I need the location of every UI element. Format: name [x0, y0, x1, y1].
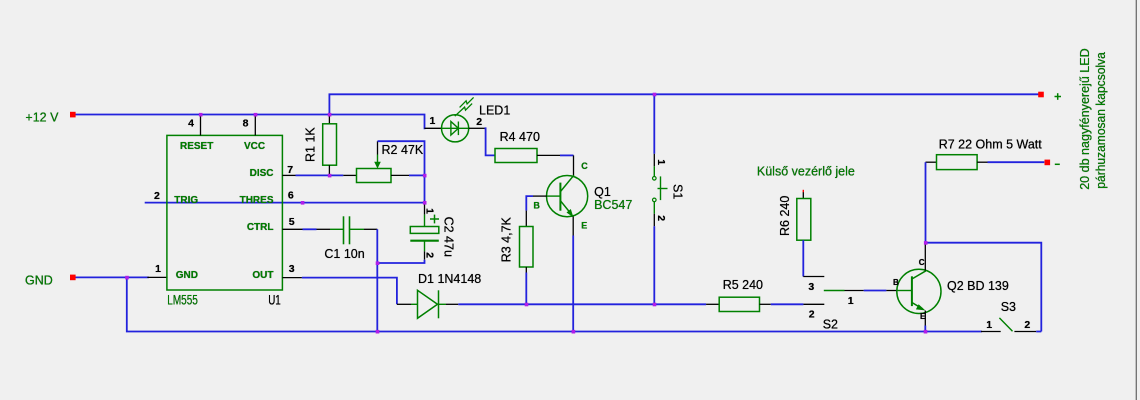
svg-text:R2 47K: R2 47K	[382, 143, 424, 157]
resistor R5	[706, 278, 771, 311]
node vertical / bottom bus	[376, 330, 380, 334]
wire R3 bottom to D1 line	[525, 273, 527, 305]
svg-text:C: C	[919, 258, 925, 267]
switch S3	[981, 300, 1041, 332]
node GND branch	[125, 276, 129, 280]
svg-text:1: 1	[848, 295, 854, 307]
svg-text:+12 V: +12 V	[25, 110, 59, 124]
svg-text:1: 1	[986, 319, 992, 331]
node pin4/bus	[199, 113, 203, 117]
svg-text:CTRL: CTRL	[247, 222, 274, 233]
U1 pin names	[174, 141, 274, 281]
wire R7 right to - terminal	[988, 161, 1045, 163]
wire +12V bus	[75, 115, 425, 129]
port - terminal	[1045, 160, 1051, 166]
wire S2 pin1 to Q2 base	[864, 290, 887, 292]
wire R6 down to S2 pin3	[802, 240, 804, 276]
resistor R4	[495, 130, 560, 163]
node R1 top branch	[328, 113, 332, 117]
svg-text:Külső vezérlő jele: Külső vezérlő jele	[757, 164, 855, 178]
svg-text:2: 2	[809, 309, 815, 321]
transistor Q2 BD 139	[886, 243, 1008, 326]
svg-text:7: 7	[287, 164, 293, 176]
svg-text:C2 47u: C2 47u	[441, 217, 455, 257]
potentiometer R2	[357, 141, 424, 182]
resistor R1	[304, 115, 337, 176]
svg-text:GND: GND	[176, 270, 198, 281]
svg-text:R3 4,7K: R3 4,7K	[499, 216, 513, 262]
wire R5 to S2 pin2	[771, 303, 804, 305]
svg-text:LED1: LED1	[479, 104, 510, 118]
svg-text:S1: S1	[671, 184, 685, 199]
wire Q2 emitter to bus	[924, 326, 926, 332]
svg-text:R7 22 Ohm 5 Watt: R7 22 Ohm 5 Watt	[939, 138, 1043, 152]
capacitor C2	[410, 203, 455, 260]
svg-text:DISC: DISC	[250, 168, 274, 179]
svg-text:TRIG: TRIG	[174, 195, 198, 206]
svg-text:6: 6	[288, 190, 294, 202]
svg-text:2: 2	[423, 252, 435, 258]
node Q1 emitter / bus	[572, 330, 576, 334]
wire R4 to Q1 collector	[560, 154, 574, 156]
pin 7 stub	[282, 174, 295, 176]
resistor R3	[499, 211, 533, 273]
svg-text:B: B	[533, 201, 540, 211]
LED LED1	[425, 97, 511, 142]
svg-text:Q2 BD 139: Q2 BD 139	[947, 279, 1009, 293]
resistor R7	[926, 138, 1043, 170]
wire TRIG-THRES through IC	[146, 202, 425, 204]
node C2 bottom / vertical	[376, 261, 380, 265]
wire GND lead	[75, 276, 148, 278]
svg-text:LM555: LM555	[167, 293, 198, 308]
wire R2 wiper loop	[378, 141, 425, 175]
svg-text:4: 4	[188, 118, 194, 130]
wire R2 right to junction	[409, 174, 425, 176]
node Q2 emitter / bus	[924, 330, 928, 334]
svg-text:D1 1N4148: D1 1N4148	[418, 272, 481, 286]
svg-text:C: C	[581, 161, 588, 171]
svg-text:OUT: OUT	[252, 270, 273, 281]
svg-text:R4 470: R4 470	[500, 130, 540, 144]
wire GND pin stub black	[148, 276, 167, 278]
svg-text:VCC: VCC	[244, 141, 265, 152]
node S1 bottom / D1 line	[653, 303, 657, 307]
node R3 bottom / D1 line	[525, 303, 529, 307]
svg-text:R1 1K: R1 1K	[304, 127, 318, 162]
wire C2 bottom to vertical	[377, 260, 424, 263]
wire C1 right vertical down to bus	[376, 229, 378, 331]
svg-text:B: B	[893, 278, 899, 287]
op-amp U1 LM555 box	[167, 135, 283, 290]
pin 8 stub	[254, 115, 256, 136]
wire GND down + bottom bus	[127, 277, 981, 331]
svg-text:2: 2	[1024, 319, 1030, 331]
right window border	[1135, 0, 1137, 400]
svg-text:BC547: BC547	[594, 198, 632, 212]
pin 5 stub	[282, 228, 302, 230]
wire junction vertical to THRES row	[424, 175, 426, 202]
wire Q1 emitter down to bus	[572, 236, 574, 332]
svg-text:E: E	[581, 221, 587, 231]
capacitor C1	[303, 216, 378, 261]
switch S1	[653, 94, 685, 304]
node THRES pin	[301, 201, 305, 205]
node R2 right / C2	[423, 174, 427, 178]
wire Q1 base from R3 top	[526, 196, 533, 211]
svg-text:párhuzamosan kapcsolva: párhuzamosan kapcsolva	[1094, 52, 1108, 189]
svg-text:1: 1	[655, 159, 667, 165]
diode D1	[397, 272, 481, 318]
node R1 bottom / DISC	[328, 174, 332, 178]
svg-text:3: 3	[289, 263, 295, 275]
wire D1 to R5	[458, 303, 706, 305]
svg-text:1: 1	[155, 263, 161, 275]
svg-text:S2: S2	[823, 317, 838, 331]
svg-text:GND: GND	[25, 274, 53, 288]
svg-text:1: 1	[423, 208, 435, 214]
svg-text:8: 8	[243, 118, 249, 130]
svg-text:20 db nagyfényerejű LED: 20 db nagyfényerejű LED	[1078, 48, 1092, 190]
resistor R6	[778, 190, 811, 240]
wire R7 left down to collector node	[925, 162, 927, 243]
svg-text:S3: S3	[1001, 300, 1016, 314]
node S1 top / branch	[653, 93, 657, 97]
switch S2	[803, 277, 863, 332]
svg-text:RESET: RESET	[180, 141, 213, 152]
wire LED to R4	[485, 128, 496, 155]
wire upper branch to + terminal	[329, 94, 1038, 114]
svg-text:2: 2	[476, 116, 482, 128]
svg-text:E: E	[920, 312, 926, 321]
node THRES / C2 top	[423, 201, 427, 205]
svg-text:5: 5	[289, 216, 295, 228]
svg-text:R5 240: R5 240	[723, 278, 763, 292]
svg-text:2: 2	[655, 215, 667, 221]
node pin8/bus	[254, 113, 258, 117]
svg-text:3: 3	[808, 281, 814, 293]
transistor Q1 BC547	[533, 155, 632, 235]
U1 pin numbers	[154, 118, 295, 276]
wire DISC row	[296, 174, 357, 176]
svg-text:2: 2	[154, 190, 160, 202]
wire OUT row	[302, 278, 397, 305]
svg-text:THRES: THRES	[240, 195, 274, 206]
svg-text:R6 240: R6 240	[778, 196, 792, 236]
pin 3 stub	[282, 277, 302, 279]
pin 4 stub	[200, 115, 202, 136]
port + terminal	[1038, 92, 1044, 98]
node R7 / Q2 collector	[924, 241, 928, 245]
svg-text:1: 1	[430, 115, 436, 127]
wire collector node loop right	[926, 243, 1042, 332]
svg-text:U1: U1	[268, 293, 281, 308]
svg-text:C1 10n: C1 10n	[324, 247, 364, 261]
